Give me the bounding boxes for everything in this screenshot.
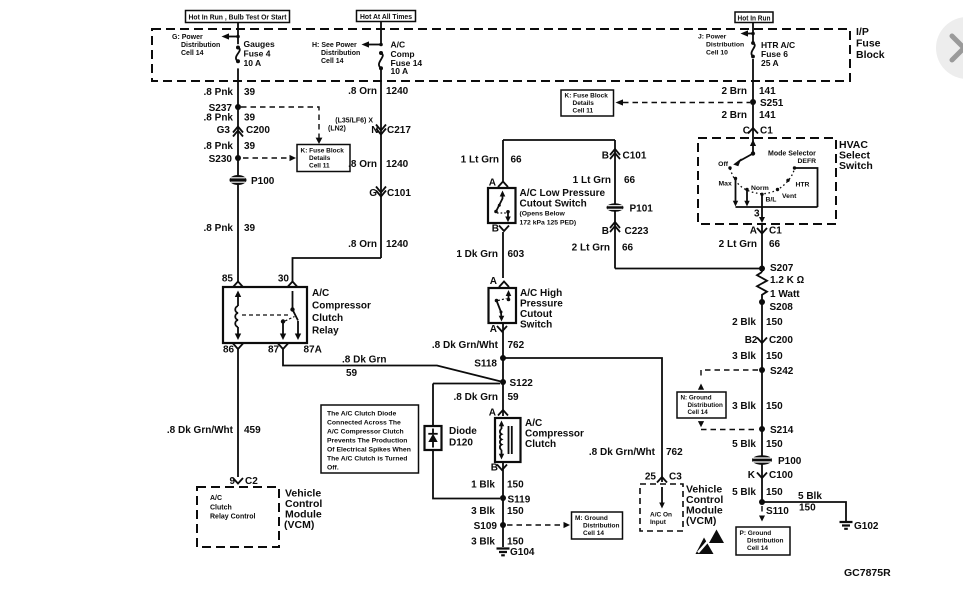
VCM pin 25 connector C3: [645, 472, 682, 483]
svg-text:59: 59: [508, 392, 520, 403]
svg-text:3 Blk: 3 Blk: [732, 351, 756, 362]
wire HVAC A C1 down to S207: [761, 224, 763, 272]
svg-text:59: 59: [346, 368, 358, 379]
wire 762 from S118 to VCM input: [503, 358, 662, 482]
wire right of left pair down to jog: [380, 69, 382, 258]
svg-text:39: 39: [244, 223, 256, 234]
svg-text:A/C: A/C: [525, 418, 542, 429]
ground G102: [840, 521, 879, 532]
svg-text:A/C: A/C: [210, 495, 222, 502]
svg-text:D120: D120: [449, 438, 473, 449]
Mode Selector label: [768, 151, 816, 158]
wire label 1 Lt Grn 66 (right): [573, 175, 636, 186]
wire clutch to G104: [502, 462, 504, 547]
svg-text:39: 39: [244, 141, 256, 152]
svg-text:Max: Max: [719, 181, 732, 188]
svg-text:150: 150: [766, 401, 783, 412]
svg-text:459: 459: [244, 425, 261, 436]
wire label .8 Orn 1240: [348, 239, 409, 250]
svg-text:3: 3: [754, 209, 760, 220]
relay pin 85: [222, 274, 243, 288]
svg-text:Relay Control: Relay Control: [210, 514, 256, 521]
note (L35/LF6) X / (LN2) N: [328, 118, 379, 137]
svg-text:Cell 14: Cell 14: [688, 409, 709, 416]
svg-text:Of Electrical Spikes When: Of Electrical Spikes When: [327, 447, 411, 454]
svg-text:Compressor: Compressor: [312, 301, 371, 312]
svg-text:A/C High: A/C High: [520, 288, 562, 299]
wire 66 horizontal to pressure switch branch: [615, 268, 762, 270]
svg-text:10 A: 10 A: [391, 66, 409, 76]
HVAC pin C connector C1: [743, 126, 773, 137]
wire high pressure switch to S118: [502, 323, 504, 416]
svg-text:C223: C223: [625, 226, 649, 237]
wire label 3 Blk 150: [471, 537, 524, 548]
svg-text:C2: C2: [245, 476, 258, 487]
svg-text:N: Ground: N: Ground: [681, 395, 712, 402]
svg-text:C: C: [743, 126, 750, 137]
connector C217: [376, 125, 411, 137]
svg-text:A/C On: A/C On: [650, 512, 672, 519]
dashed link S251 to K box: [616, 99, 751, 105]
svg-text:G: Power: G: Power: [172, 34, 203, 41]
wire label 2 Blk 150: [732, 317, 783, 328]
svg-text:141: 141: [759, 86, 776, 97]
svg-text:1 Blk: 1 Blk: [471, 480, 495, 491]
svg-text:The A/C Clutch is Turned: The A/C Clutch is Turned: [327, 456, 407, 463]
svg-text:1 Dk Grn: 1 Dk Grn: [456, 249, 498, 260]
header box "Hot In Run" (right): [735, 12, 773, 23]
grommet P101: [607, 203, 654, 214]
svg-text:2 Blk: 2 Blk: [732, 317, 756, 328]
svg-text:Norm: Norm: [751, 185, 769, 192]
connector C200 pin B2: [745, 335, 794, 346]
switch S2 A/C High Pressure Cutout Switch: [489, 288, 517, 323]
high pressure switch pin A (bottom): [490, 324, 507, 335]
ground G104: [497, 547, 535, 558]
svg-text:S208: S208: [770, 302, 794, 313]
wire left column down to relay pin 85: [237, 68, 239, 283]
svg-text:S207: S207: [770, 263, 794, 274]
relay pin 87A: [304, 345, 322, 356]
svg-text:25: 25: [645, 472, 657, 483]
mode position Off: [718, 161, 732, 170]
svg-text:S110: S110: [766, 506, 789, 517]
svg-text:Cell 14: Cell 14: [181, 50, 204, 57]
svg-text:Switch: Switch: [839, 160, 873, 172]
fuse F14 "A/C Comp Fuse 14 10 A": [379, 40, 423, 77]
wire .8 Dk Grn 59 from relay 87 to S122: [283, 349, 503, 382]
wire label 2 Brn 141: [721, 110, 776, 121]
svg-text:5 Blk: 5 Blk: [732, 487, 756, 498]
svg-text:Clutch: Clutch: [312, 313, 343, 324]
svg-text:1240: 1240: [386, 86, 409, 97]
splice S109: [474, 521, 506, 532]
svg-text:G104: G104: [510, 547, 535, 558]
svg-text:B/L: B/L: [766, 197, 777, 204]
svg-text:P100: P100: [778, 456, 802, 467]
compressor clutch pin A: [489, 408, 508, 419]
wire diode branch: [433, 384, 500, 499]
wire S110 to G102: [762, 502, 846, 521]
splice S237: [209, 103, 241, 114]
svg-text:Fuse: Fuse: [856, 38, 881, 50]
svg-text:C101: C101: [387, 188, 411, 199]
svg-text:A: A: [490, 276, 497, 287]
connector C101 pin G: [369, 187, 411, 200]
M: Ground Distribution Cell 14 box: [572, 512, 623, 539]
svg-text:Switch: Switch: [520, 320, 552, 331]
svg-text:150: 150: [507, 537, 524, 548]
svg-text:3 Blk: 3 Blk: [471, 506, 495, 517]
mode position Max: [719, 177, 739, 207]
svg-text:Hot At All Times: Hot At All Times: [360, 14, 412, 21]
compressor clutch label: [525, 418, 584, 450]
svg-text:Distribution: Distribution: [688, 402, 723, 409]
svg-text:Details: Details: [309, 155, 331, 162]
wire label 3 Blk 150: [732, 401, 783, 412]
svg-text:C1: C1: [769, 226, 782, 237]
svg-text:S122: S122: [510, 378, 534, 389]
svg-text:.8 Dk Grn/Wht: .8 Dk Grn/Wht: [432, 340, 499, 351]
wire label .8 Dk Grn 59: [454, 392, 520, 403]
svg-text:2 Brn: 2 Brn: [721, 86, 747, 97]
svg-text:HTR: HTR: [796, 182, 810, 189]
svg-text:Clutch: Clutch: [210, 505, 232, 512]
note G: Power Distribution Cell 14: [172, 34, 220, 57]
svg-text:1240: 1240: [386, 159, 409, 170]
fuse F6 "HTR A/C Fuse 6 25 A": [751, 40, 795, 68]
wire label 2 Lt Grn 66: [572, 243, 634, 254]
VCM right label: [686, 484, 723, 528]
wire label 5 Blk 150: [732, 439, 783, 450]
svg-text:K: K: [748, 470, 756, 481]
svg-text:Mode Selector: Mode Selector: [768, 151, 816, 158]
svg-text:Distribution: Distribution: [747, 538, 783, 545]
svg-text:(VCM): (VCM): [284, 519, 314, 531]
resistor R1 1.2 K ohm 1 Watt: [757, 272, 805, 302]
wire label 1 Blk 150: [471, 480, 524, 491]
arrow to H note: [362, 41, 383, 47]
svg-text:C100: C100: [769, 470, 793, 481]
svg-text:85: 85: [222, 274, 234, 285]
svg-text:B: B: [602, 151, 609, 162]
svg-text:A/C: A/C: [391, 40, 406, 50]
svg-text:Cutout: Cutout: [520, 309, 553, 320]
splice S110: [759, 499, 789, 517]
svg-text:Distribution: Distribution: [706, 42, 744, 49]
N: Ground Distribution Cell 14 box: [677, 392, 726, 418]
wire label .8 Pnk 39: [204, 223, 256, 234]
wire from Hot At All Times header to A/C Comp fuse: [380, 22, 382, 46]
wire label .8 Pnk 39: [204, 113, 256, 124]
svg-text:66: 66: [769, 239, 781, 250]
low pressure switch label: [520, 188, 606, 227]
HVAC Select Switch dashed box: [698, 138, 836, 224]
svg-text:A: A: [750, 226, 757, 237]
svg-text:Relay: Relay: [312, 326, 339, 337]
svg-text:150: 150: [766, 487, 783, 498]
svg-text:Cell 10: Cell 10: [706, 50, 728, 57]
svg-text:Cell 14: Cell 14: [583, 530, 604, 537]
svg-text:10 A: 10 A: [244, 58, 262, 68]
svg-text:Connected Across The: Connected Across The: [327, 420, 401, 427]
splice S118: [474, 355, 506, 370]
svg-text:150: 150: [766, 351, 783, 362]
wire label 3 Blk 150: [732, 351, 783, 362]
svg-text:C217: C217: [387, 125, 411, 136]
wire label 1 Dk Grn 603: [456, 249, 524, 260]
svg-text:150: 150: [507, 506, 524, 517]
svg-text:A/C: A/C: [312, 288, 329, 299]
svg-text:Cell 11: Cell 11: [573, 108, 594, 115]
dashed link S109 to M ground distribution box: [507, 522, 570, 528]
ESD caution symbol: [696, 530, 725, 555]
arrow to G note: [222, 33, 240, 39]
svg-text:2 Lt Grn: 2 Lt Grn: [572, 243, 610, 254]
wire label .8 Dk Grn/Wht 762 (right): [589, 447, 683, 458]
header box "Hot In Run , Bulb Test Or Start": [186, 11, 290, 23]
svg-text:Distribution: Distribution: [321, 50, 360, 57]
svg-text:150: 150: [799, 503, 816, 514]
wire relay 86 to VCM pin 9: [237, 349, 239, 477]
mode position B/L: [760, 193, 776, 204]
svg-text:66: 66: [622, 243, 634, 254]
relay coil: [235, 291, 241, 341]
dashed link S110 to P ground box: [759, 506, 765, 522]
splice S251: [750, 98, 784, 109]
svg-text:C3: C3: [669, 472, 682, 483]
wire label 5 Blk 150 (to G102): [798, 491, 822, 514]
svg-text:2 Brn: 2 Brn: [721, 110, 747, 121]
wire label 3 Blk 150: [471, 506, 524, 517]
svg-text:762: 762: [508, 340, 525, 351]
svg-text:Cutout Switch: Cutout Switch: [520, 199, 587, 210]
relay pin 30: [278, 274, 298, 288]
mode selector wiper: [733, 138, 756, 166]
svg-text:1 Lt Grn: 1 Lt Grn: [461, 155, 499, 166]
svg-text:Compressor: Compressor: [525, 429, 584, 440]
arrow to J note: [741, 30, 755, 36]
wire label .8 Orn 1240: [348, 86, 409, 97]
mode position Vent: [776, 188, 797, 200]
svg-text:Gauges: Gauges: [244, 39, 275, 49]
svg-text:.8 Dk Grn: .8 Dk Grn: [342, 355, 386, 366]
wire label 2 Lt Grn 66: [719, 239, 781, 250]
svg-text:S242: S242: [770, 366, 794, 377]
svg-text:1 Lt Grn: 1 Lt Grn: [573, 175, 611, 186]
P: Ground Distribution Cell 14 box: [736, 527, 790, 555]
K: Fuse Block Details Cell 11 box (left): [297, 145, 350, 172]
svg-text:87: 87: [268, 345, 280, 356]
wire label 2 Brn 141: [721, 86, 776, 97]
svg-text:87A: 87A: [304, 345, 322, 356]
wire label .8 Dk Grn/Wht 459: [167, 425, 261, 436]
splice S208: [759, 299, 793, 313]
svg-text:S118: S118: [474, 359, 497, 370]
svg-text:150: 150: [766, 439, 783, 450]
svg-text:C1: C1: [760, 126, 773, 137]
wire from Hot In Run header to Gauges fuse: [237, 23, 239, 45]
svg-text:G3: G3: [217, 125, 231, 136]
wire down to low pressure switch: [502, 140, 504, 182]
svg-text:G: G: [369, 188, 377, 199]
svg-text:141: 141: [759, 110, 776, 121]
VCM pin 9 connector C2: [229, 476, 258, 487]
svg-text:.8 Dk Grn: .8 Dk Grn: [454, 392, 498, 403]
wire jog to relay pin 30: [293, 258, 382, 283]
svg-text:Pressure: Pressure: [520, 299, 563, 310]
svg-text:A/C Compressor Clutch: A/C Compressor Clutch: [327, 429, 404, 436]
HVAC Select Switch label: [839, 139, 873, 172]
module U1 Vehicle Control Module (left) dashed box: [197, 487, 279, 547]
svg-text:K: Fuse Block: K: Fuse Block: [565, 93, 609, 100]
svg-text:Details: Details: [573, 100, 595, 107]
splice S242: [759, 366, 794, 377]
svg-text:B: B: [602, 226, 609, 237]
svg-text:S214: S214: [770, 425, 794, 436]
svg-text:J: Power: J: Power: [698, 34, 727, 41]
coil L1 A/C Compressor Clutch: [495, 418, 521, 462]
svg-text:H: See Power: H: See Power: [312, 42, 357, 49]
svg-text:2 Lt Grn: 2 Lt Grn: [719, 239, 757, 250]
svg-text:9: 9: [229, 476, 235, 487]
connector C100 pin K: [748, 470, 794, 481]
note H: See Power Distribution Cell 14: [312, 42, 360, 65]
module U1 Vehicle Control Module (right) dashed box: [640, 484, 683, 531]
wire Hot In Run (right) to HTR fuse: [752, 23, 754, 42]
svg-text:.8 Pnk: .8 Pnk: [204, 223, 234, 234]
connector C223 pin B: [602, 222, 649, 237]
I/P Fuse Block label: [856, 26, 885, 61]
svg-text:(VCM): (VCM): [686, 515, 716, 527]
diode D120: [425, 426, 478, 450]
high pressure switch label: [520, 288, 563, 331]
svg-text:.8 Pnk: .8 Pnk: [204, 141, 234, 152]
svg-text:(L35/LF6) X: (L35/LF6) X: [335, 118, 373, 125]
svg-text:C200: C200: [246, 125, 270, 136]
svg-text:Off.: Off.: [327, 465, 339, 472]
svg-text:C200: C200: [769, 335, 793, 346]
low pressure switch pin B: [492, 224, 509, 235]
svg-text:66: 66: [624, 175, 636, 186]
next-page navigation button: [936, 17, 963, 79]
splice S214: [759, 425, 794, 436]
svg-text:Off: Off: [718, 161, 729, 168]
svg-text:P100: P100: [251, 176, 275, 187]
svg-text:A: A: [490, 324, 497, 335]
svg-text:5 Blk: 5 Blk: [732, 439, 756, 450]
svg-text:762: 762: [666, 447, 683, 458]
connector C101 pin B: [602, 149, 647, 162]
svg-text:5 Blk: 5 Blk: [798, 491, 822, 502]
svg-text:Prevents The Production: Prevents The Production: [327, 438, 407, 445]
svg-text:B: B: [491, 463, 498, 474]
svg-text:172 kPa 125 PED): 172 kPa 125 PED): [520, 220, 577, 227]
svg-text:(LN2): (LN2): [328, 126, 346, 133]
mode position DEFR: [793, 158, 818, 207]
grommet P100 (right): [752, 455, 802, 467]
svg-text:Input: Input: [650, 519, 667, 526]
wire label .8 Pnk 39: [204, 141, 256, 152]
wire label 1 Lt Grn 66 (left): [461, 155, 522, 166]
switch S1 A/C Low Pressure Cutout Switch: [488, 188, 516, 223]
svg-text:P101: P101: [630, 204, 654, 215]
svg-text:G102: G102: [854, 521, 879, 532]
svg-text:.8 Pnk: .8 Pnk: [204, 87, 234, 98]
svg-text:603: 603: [508, 249, 525, 260]
svg-text:.8 Dk Grn/Wht: .8 Dk Grn/Wht: [589, 447, 656, 458]
svg-text:M: Ground: M: Ground: [575, 515, 608, 522]
note J: Power Distribution Cell 10: [698, 34, 744, 57]
svg-text:A/C Low Pressure: A/C Low Pressure: [520, 188, 606, 199]
fuse F4 "Gauges Fuse 4 10 A": [236, 39, 275, 68]
svg-text:B: B: [492, 224, 499, 235]
svg-text:39: 39: [244, 113, 256, 124]
mode selector dotted travel arc: [730, 169, 795, 194]
splice S119: [500, 495, 531, 506]
svg-text:3 Blk: 3 Blk: [732, 401, 756, 412]
svg-text:B2: B2: [745, 335, 758, 346]
svg-text:86: 86: [223, 345, 235, 356]
dashed link N box to S214: [698, 421, 757, 429]
I/P fuse block dashed box: [152, 29, 850, 81]
svg-text:Vent: Vent: [782, 193, 797, 200]
low pressure switch pin A: [489, 178, 508, 189]
svg-text:A: A: [489, 178, 496, 189]
svg-text:.8 Pnk: .8 Pnk: [204, 113, 234, 124]
wire right column down to S110: [761, 302, 763, 502]
relay pin 86: [223, 344, 243, 356]
svg-text:1.2 K Ω: 1.2 K Ω: [770, 275, 805, 286]
svg-text:GC7875R: GC7875R: [844, 567, 891, 579]
svg-text:25 A: 25 A: [761, 58, 779, 68]
svg-text:S119: S119: [508, 495, 531, 506]
svg-text:Hot In Run: Hot In Run: [738, 15, 771, 22]
wire label 5 Blk 150: [732, 487, 783, 498]
svg-text:.8 Orn: .8 Orn: [348, 86, 377, 97]
svg-text:.8 Orn: .8 Orn: [348, 159, 377, 170]
note box: diode explanation: [321, 405, 419, 473]
svg-text:S251: S251: [760, 98, 784, 109]
mode selector output bus: [736, 206, 818, 208]
HVAC output pin 3: [754, 194, 765, 223]
splice S207: [759, 263, 794, 274]
compressor clutch pin B: [491, 463, 507, 474]
splice S230: [209, 154, 241, 165]
svg-text:K: Fuse Block: K: Fuse Block: [301, 148, 345, 155]
svg-text:Distribution: Distribution: [583, 523, 619, 530]
svg-text:DEFR: DEFR: [798, 158, 817, 165]
relay switch contacts: [280, 291, 301, 340]
svg-text:Diode: Diode: [449, 426, 477, 437]
relay K1 A/C Compressor Clutch Relay box: [223, 287, 307, 343]
svg-text:39: 39: [244, 87, 256, 98]
svg-text:30: 30: [278, 274, 290, 285]
svg-text:Block: Block: [856, 49, 885, 61]
dashed link S242 to N ground box: [698, 370, 758, 390]
svg-text:150: 150: [507, 480, 524, 491]
wire label .8 Orn 1240: [348, 159, 409, 170]
relay pin 87: [268, 344, 288, 356]
svg-text:Cell 14: Cell 14: [321, 58, 344, 65]
svg-text:Hot In Run , Bulb Test Or Star: Hot In Run , Bulb Test Or Start: [189, 15, 288, 22]
svg-text:C101: C101: [623, 151, 647, 162]
svg-text:A: A: [489, 408, 496, 419]
dashed link S230 to K fuse block details box: [243, 155, 296, 161]
mode position HTR: [786, 179, 809, 189]
wire C101/C223 branch: [614, 140, 616, 269]
svg-text:Fuse 4: Fuse 4: [244, 49, 271, 59]
